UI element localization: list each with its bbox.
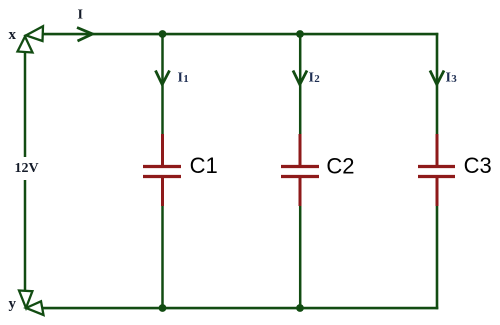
svg-text:y: y bbox=[9, 296, 17, 312]
svg-text:3: 3 bbox=[451, 73, 457, 85]
svg-text:C1: C1 bbox=[190, 153, 218, 178]
svg-text:C2: C2 bbox=[326, 153, 354, 178]
svg-text:C3: C3 bbox=[464, 153, 492, 178]
svg-text:12V: 12V bbox=[15, 161, 39, 176]
svg-text:x: x bbox=[9, 27, 17, 43]
svg-text:I: I bbox=[178, 71, 183, 86]
svg-text:I: I bbox=[446, 71, 451, 86]
svg-text:1: 1 bbox=[183, 73, 189, 85]
svg-text:I: I bbox=[309, 71, 314, 86]
svg-text:2: 2 bbox=[314, 73, 320, 85]
svg-text:I: I bbox=[78, 8, 83, 23]
